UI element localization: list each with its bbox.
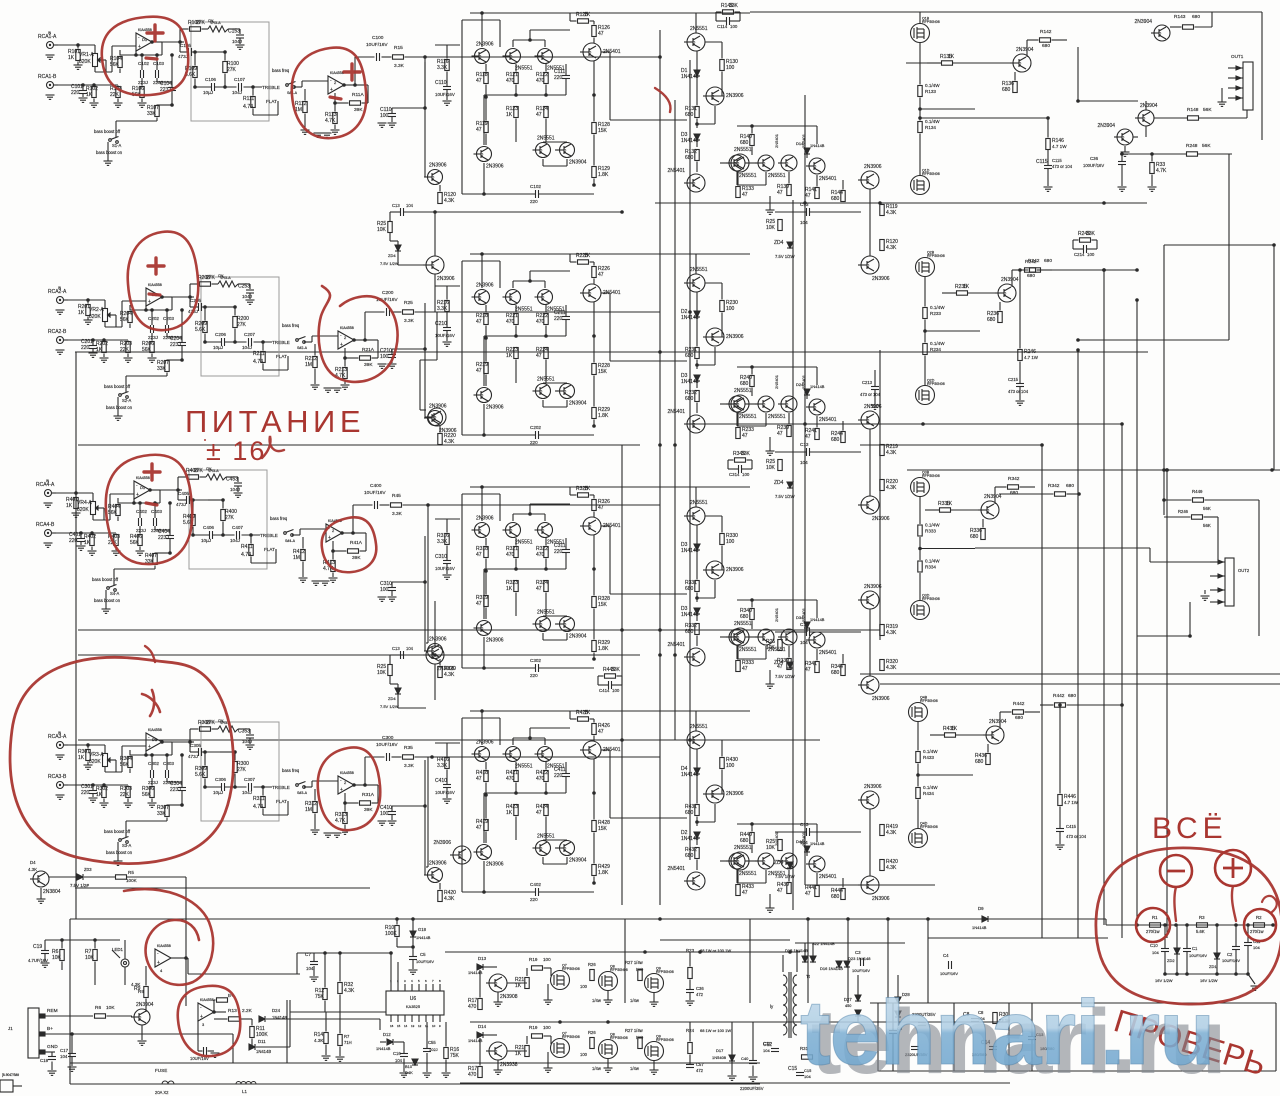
svg-text:C306: C306 — [215, 777, 226, 782]
svg-text:100: 100 — [380, 354, 389, 360]
svg-text:RFP50N06: RFP50N06 — [922, 474, 940, 478]
svg-text:1N414B: 1N414B — [376, 1046, 391, 1051]
svg-text:104: 104 — [800, 460, 808, 465]
svg-text:10K: 10K — [766, 465, 776, 471]
svg-text:75K: 75K — [315, 994, 325, 1000]
svg-text:2N5551: 2N5551 — [690, 724, 708, 730]
svg-text:47: 47 — [476, 825, 482, 831]
svg-text:680: 680 — [1042, 43, 1050, 49]
svg-text:47: 47 — [476, 601, 482, 607]
svg-text:2N3906: 2N3906 — [429, 404, 447, 410]
svg-text:100K: 100K — [126, 878, 138, 883]
svg-text:680: 680 — [685, 853, 694, 859]
svg-text:+: + — [328, 535, 331, 541]
svg-text:2N3906: 2N3906 — [872, 516, 890, 522]
svg-text:680: 680 — [1068, 693, 1076, 699]
svg-text:S#3-A: S#3-A — [297, 791, 308, 795]
svg-text:4.3K: 4.3K — [886, 830, 897, 836]
svg-text:C107: C107 — [234, 77, 245, 82]
svg-text:100: 100 — [726, 763, 735, 769]
svg-text:R15: R15 — [394, 45, 403, 51]
svg-text:47: 47 — [536, 353, 542, 359]
svg-text:1K: 1K — [948, 54, 955, 60]
svg-text:R7: R7 — [344, 1034, 350, 1039]
svg-text:27K: 27K — [237, 322, 247, 328]
svg-text:223J: 223J — [170, 787, 181, 793]
svg-text:680: 680 — [1066, 483, 1074, 489]
svg-text:R442: R442 — [1013, 701, 1025, 707]
svg-text:+: + — [148, 299, 151, 305]
svg-text:R31A: R31A — [362, 792, 375, 798]
svg-text:bass boost off: bass boost off — [92, 577, 119, 582]
svg-text:± 16: ± 16 — [206, 436, 266, 466]
svg-text:KIA4558: KIA4558 — [200, 998, 214, 1002]
svg-text:2N3804: 2N3804 — [43, 889, 61, 895]
svg-text:56K: 56K — [108, 510, 118, 516]
svg-text:2N3904: 2N3904 — [569, 858, 587, 864]
svg-text:27K: 27K — [206, 275, 216, 281]
svg-text:C100: C100 — [372, 35, 384, 41]
svg-text:1K: 1K — [963, 284, 970, 290]
svg-text:2N3906: 2N3906 — [726, 791, 744, 797]
svg-text:VR3-A: VR3-A — [89, 752, 104, 758]
svg-text:D1: D1 — [140, 485, 146, 490]
svg-text:4.7K: 4.7K — [1156, 168, 1167, 174]
svg-text:47: 47 — [536, 586, 542, 592]
svg-text:2N3938: 2N3938 — [500, 1062, 518, 1068]
svg-text:2N3904: 2N3904 — [1016, 47, 1034, 53]
svg-text:C13: C13 — [392, 646, 400, 651]
svg-text:39K: 39K — [354, 107, 363, 113]
svg-text:4.3K: 4.3K — [886, 630, 897, 636]
svg-text:2N5401: 2N5401 — [819, 176, 837, 182]
svg-text:12: 12 — [418, 1024, 422, 1028]
svg-text:1K: 1K — [86, 92, 93, 98]
svg-text:RFP50N06: RFP50N06 — [922, 20, 940, 24]
svg-text:C15: C15 — [788, 1066, 797, 1072]
svg-text:680: 680 — [740, 140, 749, 146]
svg-text:4.3K: 4.3K — [444, 439, 455, 445]
svg-text:56K: 56K — [1203, 107, 1212, 113]
svg-text:1M: 1M — [293, 555, 300, 561]
svg-text:RFP50N06: RFP50N06 — [656, 970, 674, 974]
svg-text:1K: 1K — [515, 983, 522, 989]
svg-text:1N4148: 1N4148 — [681, 74, 699, 80]
svg-text:10K: 10K — [377, 227, 387, 233]
svg-text:2N3906: 2N3906 — [872, 276, 890, 282]
svg-text:2N3904: 2N3904 — [569, 401, 587, 407]
svg-text:R411: R411 — [241, 544, 253, 550]
svg-text:3.3K: 3.3K — [437, 539, 448, 545]
svg-text:56K: 56K — [142, 347, 152, 353]
svg-text:3.3K: 3.3K — [392, 511, 403, 517]
svg-text:REM: REM — [47, 1008, 58, 1014]
svg-text:100K: 100K — [385, 931, 397, 937]
svg-text:1K: 1K — [96, 792, 103, 798]
svg-text:C202: C202 — [530, 425, 541, 430]
svg-text:RCA3-B: RCA3-B — [48, 774, 67, 780]
svg-text:TREBLE: TREBLE — [262, 85, 280, 90]
svg-text:1K: 1K — [84, 540, 91, 546]
svg-text:4.7 1W: 4.7 1W — [1064, 800, 1079, 805]
svg-text:D4: D4 — [30, 860, 36, 865]
svg-text:ZD4: ZD4 — [388, 696, 396, 701]
svg-text:10µJ: 10µJ — [213, 790, 223, 795]
svg-text:820K: 820K — [79, 59, 91, 65]
svg-text:C353: C353 — [238, 729, 250, 735]
svg-text:680: 680 — [685, 155, 694, 161]
svg-text:KIA4558: KIA4558 — [330, 71, 344, 75]
svg-text:RFP50N06: RFP50N06 — [920, 699, 938, 703]
svg-text:D4K: D4K — [405, 1070, 413, 1075]
svg-text:R2: R2 — [1256, 915, 1262, 920]
svg-text:C206: C206 — [215, 332, 226, 337]
svg-text:71H: 71H — [344, 1040, 352, 1045]
svg-text:100UF/16V: 100UF/16V — [1083, 163, 1104, 168]
svg-text:C214: C214 — [1074, 252, 1085, 257]
svg-text:C402: C402 — [530, 882, 541, 887]
svg-text:R1: R1 — [1152, 915, 1158, 920]
svg-text:1K: 1K — [68, 55, 75, 61]
svg-text:C1: C1 — [1192, 946, 1198, 951]
svg-text:104: 104 — [800, 220, 808, 225]
svg-text:2N3906: 2N3906 — [726, 93, 744, 99]
svg-text:2N5401: 2N5401 — [774, 133, 779, 148]
svg-text:10UF/16V: 10UF/16V — [940, 971, 958, 976]
svg-text:13: 13 — [411, 1024, 415, 1028]
svg-text:100: 100 — [580, 1052, 588, 1057]
svg-text:2N5551: 2N5551 — [690, 267, 708, 273]
svg-text:D14: D14 — [796, 141, 804, 146]
svg-text:R233: R233 — [930, 311, 941, 316]
svg-text:473 or 104: 473 or 104 — [1052, 164, 1073, 169]
svg-text:27K: 27K — [194, 468, 204, 474]
svg-text:CW: CW — [206, 467, 211, 471]
svg-text:220: 220 — [554, 75, 563, 81]
svg-text:4.74: 4.74 — [253, 804, 263, 810]
svg-text:C2: C2 — [1227, 952, 1233, 957]
svg-text:104: 104 — [800, 640, 808, 645]
svg-text:S#2-A: S#2-A — [297, 346, 308, 350]
svg-text:27K: 27K — [225, 515, 235, 521]
svg-text:100: 100 — [730, 24, 738, 29]
svg-text:10µJ: 10µJ — [203, 90, 213, 95]
svg-text:470: 470 — [536, 552, 545, 558]
svg-text:47: 47 — [536, 112, 542, 118]
svg-text:2N3906: 2N3906 — [864, 584, 882, 590]
svg-text:2N5551: 2N5551 — [690, 26, 708, 32]
svg-text:C3: C3 — [855, 950, 861, 955]
svg-text:680: 680 — [831, 670, 840, 676]
svg-text:2N5551: 2N5551 — [739, 647, 757, 653]
svg-text:2N3906: 2N3906 — [864, 404, 882, 410]
svg-text:2N5401: 2N5401 — [667, 642, 685, 648]
svg-text:1N4148: 1N4148 — [681, 548, 699, 554]
svg-text:RFP50N06: RFP50N06 — [927, 382, 945, 386]
svg-text:C153: C153 — [228, 29, 240, 35]
svg-text:1K: 1K — [506, 353, 513, 359]
svg-text:470: 470 — [506, 78, 515, 84]
svg-text:2N3906: 2N3906 — [437, 666, 455, 672]
svg-text:820K: 820K — [89, 759, 101, 765]
svg-text:10UF/16V: 10UF/16V — [364, 490, 386, 496]
svg-text:R11A: R11A — [352, 92, 364, 98]
svg-text:C305: C305 — [190, 743, 201, 748]
svg-text:R333: R333 — [925, 529, 936, 534]
svg-text:220: 220 — [554, 316, 563, 322]
svg-text:4.3K: 4.3K — [344, 988, 355, 994]
svg-text:C36: C36 — [696, 986, 704, 991]
svg-text:1.8K: 1.8K — [598, 172, 609, 178]
svg-text:22K: 22K — [120, 792, 130, 798]
svg-text:C406: C406 — [203, 525, 214, 530]
svg-text:1K: 1K — [506, 810, 513, 816]
svg-text:D17: D17 — [716, 1048, 724, 1053]
svg-text:33K: 33K — [157, 811, 167, 817]
svg-text:47: 47 — [742, 666, 748, 672]
svg-text:0.1/4W: 0.1/4W — [925, 523, 940, 528]
svg-text:C202: C202 — [148, 316, 159, 321]
svg-text:47: 47 — [742, 433, 748, 439]
svg-text:4.3K: 4.3K — [444, 896, 455, 902]
svg-text:C307: C307 — [244, 777, 255, 782]
svg-text:ZD4: ZD4 — [774, 660, 784, 666]
svg-text:220: 220 — [554, 773, 563, 779]
svg-text:33K: 33K — [729, 3, 739, 9]
svg-text:1M: 1M — [305, 362, 312, 368]
svg-text:RCA1-B: RCA1-B — [38, 74, 57, 80]
svg-text:68 1W or 100 1W: 68 1W or 100 1W — [700, 948, 731, 953]
svg-text:39K: 39K — [364, 807, 373, 813]
svg-text:7.5V 1/2W: 7.5V 1/2W — [775, 674, 795, 679]
svg-text:R133: R133 — [925, 89, 936, 94]
svg-text:TREBLE: TREBLE — [272, 340, 290, 345]
svg-text:2N5401: 2N5401 — [819, 650, 837, 656]
svg-text:C300: C300 — [382, 735, 394, 741]
svg-text:FLAT: FLAT — [276, 799, 287, 804]
svg-text:R27 1/4w: R27 1/4w — [625, 960, 644, 965]
svg-text:CW: CW — [208, 19, 213, 23]
svg-text:R242: R242 — [1028, 258, 1040, 264]
svg-text:S3-A: S3-A — [122, 843, 132, 848]
svg-text:47: 47 — [805, 193, 811, 199]
svg-text:2N5551: 2N5551 — [734, 147, 752, 153]
svg-text:ВСЁ: ВСЁ — [1152, 812, 1228, 845]
svg-text:1K: 1K — [506, 112, 513, 118]
svg-text:223J: 223J — [136, 528, 146, 533]
svg-text:220: 220 — [530, 199, 538, 204]
svg-text:1/4w: 1/4w — [592, 998, 602, 1003]
svg-text:220: 220 — [81, 790, 90, 796]
svg-text:2N3906: 2N3906 — [864, 784, 882, 790]
svg-text:bass boost on: bass boost on — [96, 150, 123, 155]
svg-text:KA3525: KA3525 — [406, 1004, 421, 1009]
svg-text:1/4w: 1/4w — [592, 1066, 602, 1071]
svg-text:680: 680 — [685, 629, 694, 635]
svg-text:2N3906: 2N3906 — [433, 840, 451, 846]
svg-text:223J: 223J — [148, 335, 158, 340]
svg-text:KIA4558: KIA4558 — [148, 728, 162, 732]
svg-text:56K: 56K — [142, 792, 152, 798]
svg-text:L1: L1 — [242, 1089, 247, 1094]
svg-text:TREBLE: TREBLE — [272, 785, 290, 790]
svg-text:GND: GND — [47, 1044, 58, 1050]
svg-text:C314: C314 — [729, 472, 740, 477]
svg-text:680: 680 — [1192, 14, 1200, 20]
svg-text:47: 47 — [805, 667, 811, 673]
svg-text:27K: 27K — [206, 720, 216, 726]
svg-text:47: 47 — [476, 78, 482, 84]
svg-text:C13: C13 — [800, 442, 809, 447]
svg-text:CW: CW — [218, 274, 223, 278]
svg-text:104: 104 — [60, 1054, 68, 1059]
svg-text:2N3906: 2N3906 — [726, 567, 744, 573]
svg-text:472: 472 — [696, 992, 704, 997]
svg-text:C16: C16 — [393, 1051, 401, 1056]
svg-text:3.3K: 3.3K — [404, 318, 415, 324]
svg-text:47: 47 — [805, 891, 811, 897]
svg-text:R26: R26 — [588, 962, 596, 967]
svg-text:C102: C102 — [530, 184, 541, 189]
svg-text:RFP50N06: RFP50N06 — [610, 1036, 628, 1040]
svg-text:104J: 104J — [242, 790, 252, 795]
svg-text:R25: R25 — [404, 300, 413, 306]
svg-text:D11: D11 — [258, 1039, 266, 1044]
svg-text:1N4148: 1N4148 — [681, 315, 699, 321]
svg-text:2N3906: 2N3906 — [872, 896, 890, 902]
svg-text:2N5551: 2N5551 — [739, 871, 757, 877]
svg-text:B+: B+ — [47, 1026, 53, 1032]
svg-text:33K: 33K — [147, 111, 157, 117]
svg-text:1N4148: 1N4148 — [681, 772, 699, 778]
svg-text:R334: R334 — [925, 565, 936, 570]
svg-text:D13: D13 — [478, 956, 487, 961]
svg-text:R248: R248 — [1186, 143, 1198, 149]
svg-text:3.3K: 3.3K — [437, 763, 448, 769]
svg-text:47: 47 — [598, 272, 604, 278]
svg-text:[8-9047/5##: [8-9047/5## — [2, 1073, 19, 1077]
svg-text:2N3904: 2N3904 — [569, 634, 587, 640]
svg-text:473J: 473J — [188, 754, 198, 759]
svg-text:15K: 15K — [598, 602, 608, 608]
svg-text:4.7K: 4.7K — [325, 118, 336, 124]
svg-text:39K: 39K — [352, 555, 361, 561]
svg-text:KIA4558: KIA4558 — [340, 326, 354, 330]
svg-text:ZD4: ZD4 — [774, 480, 784, 486]
svg-text:47: 47 — [598, 729, 604, 735]
svg-text:2N3906: 2N3906 — [872, 696, 890, 702]
svg-text:2N3904: 2N3904 — [1097, 123, 1115, 129]
svg-text:C5: C5 — [420, 952, 426, 957]
svg-text:680: 680 — [975, 759, 984, 765]
svg-text:1N4148: 1N4148 — [681, 612, 699, 618]
svg-text:D9: D9 — [978, 906, 984, 911]
svg-text:C302: C302 — [530, 658, 541, 663]
svg-text:FLAT: FLAT — [264, 547, 275, 552]
svg-text:2N3904: 2N3904 — [569, 160, 587, 166]
svg-text:10UF/16V: 10UF/16V — [1222, 958, 1240, 963]
svg-text:223J: 223J — [148, 780, 158, 785]
svg-text:56K: 56K — [120, 762, 130, 768]
svg-text:R342: R342 — [1008, 476, 1020, 482]
svg-text:2N5401: 2N5401 — [667, 168, 685, 174]
svg-text:220: 220 — [69, 538, 78, 544]
svg-text:C253: C253 — [238, 284, 250, 290]
svg-text:D14: D14 — [478, 1024, 487, 1029]
svg-text:C13: C13 — [800, 202, 809, 207]
svg-text:270/1w: 270/1w — [1146, 929, 1160, 934]
svg-text:C405: C405 — [178, 491, 189, 496]
svg-text:Z03: Z03 — [84, 867, 92, 872]
svg-text:47: 47 — [598, 505, 604, 511]
svg-text:1.8K: 1.8K — [598, 870, 609, 876]
svg-text:S4-A: S4-A — [110, 591, 120, 596]
svg-text:D24: D24 — [796, 382, 804, 387]
svg-text:R19: R19 — [529, 1025, 538, 1030]
svg-text:104J: 104J — [242, 345, 252, 350]
svg-text:10K: 10K — [85, 955, 95, 961]
svg-text:1K: 1K — [78, 755, 85, 761]
svg-text:+: + — [200, 1014, 203, 1020]
svg-text:680: 680 — [1027, 273, 1035, 279]
svg-text:C10: C10 — [1150, 943, 1158, 948]
svg-text:470: 470 — [536, 78, 545, 84]
svg-text:680: 680 — [1015, 715, 1023, 721]
svg-text:10UF/16V: 10UF/16V — [435, 333, 455, 338]
svg-text:D1: D1 — [152, 737, 158, 742]
svg-text:47: 47 — [777, 431, 783, 437]
svg-text:3.3K: 3.3K — [437, 65, 448, 71]
svg-text:4.7 1W: 4.7 1W — [1052, 144, 1067, 149]
svg-text:104: 104 — [763, 1048, 770, 1053]
svg-text:J1: J1 — [8, 1026, 13, 1031]
svg-text:7.5V 1/2W: 7.5V 1/2W — [775, 254, 795, 259]
svg-text:R142: R142 — [1040, 29, 1052, 35]
svg-text:10K: 10K — [766, 225, 776, 231]
svg-text:56K: 56K — [1203, 506, 1211, 511]
svg-text:OUT1: OUT1 — [1231, 54, 1244, 59]
svg-text:R3: R3 — [1199, 915, 1205, 920]
svg-text:1/4w: 1/4w — [630, 998, 640, 1003]
svg-text:680: 680 — [1002, 87, 1011, 93]
svg-text:104: 104 — [306, 966, 314, 971]
svg-text:10: 10 — [432, 1024, 436, 1028]
svg-text:100: 100 — [380, 811, 389, 817]
svg-text:5.6K: 5.6K — [195, 327, 206, 333]
svg-text:270/1w: 270/1w — [1250, 929, 1264, 934]
svg-text:R6: R6 — [95, 1005, 101, 1011]
svg-text:47: 47 — [476, 776, 482, 782]
svg-text:100: 100 — [580, 984, 588, 989]
svg-text:680: 680 — [831, 894, 840, 900]
svg-text:bass freq: bass freq — [272, 68, 290, 73]
svg-text:C55: C55 — [428, 1040, 436, 1045]
svg-text:C302: C302 — [148, 761, 159, 766]
svg-text:C13: C13 — [800, 822, 809, 827]
svg-text:R449: R449 — [1192, 489, 1203, 494]
svg-text:R342: R342 — [1048, 483, 1060, 489]
svg-text:RFP50N06: RFP50N06 — [922, 172, 940, 176]
svg-text:104: 104 — [1253, 945, 1260, 950]
svg-text:2N3906: 2N3906 — [486, 862, 504, 868]
svg-text:C203: C203 — [163, 316, 174, 321]
svg-text:D34: D34 — [796, 615, 804, 620]
svg-text:+: + — [330, 87, 333, 93]
svg-text:2N3906: 2N3906 — [476, 283, 494, 289]
svg-text:15K: 15K — [598, 826, 608, 832]
svg-text:220: 220 — [554, 549, 563, 555]
svg-text:47: 47 — [476, 127, 482, 133]
